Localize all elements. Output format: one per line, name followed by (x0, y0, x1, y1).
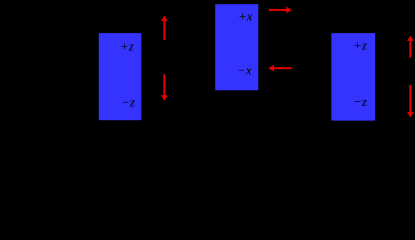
dimension arrow up (right edge pair) (407, 36, 414, 58)
panel x face (middle blue rectangle) (215, 4, 258, 90)
svg-text:+x: +x (238, 9, 253, 24)
svg-text:−z: −z (353, 94, 367, 109)
dimension arrow up (left pair) (161, 16, 168, 40)
dimension arrow down (right edge pair) (407, 85, 414, 117)
svg-text:−z: −z (121, 94, 135, 109)
svg-text:−x: −x (237, 63, 252, 78)
panel +z face (right blue rectangle) (331, 33, 375, 121)
radiation arrow right (top, from +x face) (269, 7, 292, 14)
radiation arrow left (toward -x face) (269, 65, 292, 72)
dimension arrow down (left pair) (161, 74, 168, 100)
panel -z face (left blue rectangle) (99, 33, 142, 120)
svg-text:+z: +z (120, 39, 134, 54)
svg-text:+z: +z (353, 38, 367, 53)
